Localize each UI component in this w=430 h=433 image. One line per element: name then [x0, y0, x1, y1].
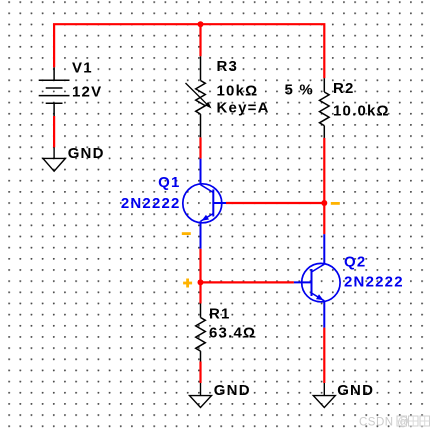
svg-text:10kΩ: 10kΩ: [217, 83, 259, 100]
polarity minus at Q1 emitter: [182, 232, 191, 235]
svg-text:Q1: Q1: [158, 174, 180, 191]
wire R2 bottom to Q2 collector: [323, 138, 325, 234]
wire R3 bottom to Q1 collector: [199, 137, 201, 158]
resistor R2: [320, 78, 330, 138]
ground GND middle: [190, 383, 212, 408]
battery V1: [39, 67, 70, 116]
svg-text:12V: 12V: [72, 84, 102, 101]
polarity minus at node B: [331, 202, 340, 205]
resistor R1: [196, 304, 206, 362]
svg-text:R3: R3: [217, 58, 239, 75]
junction node E (Q1 emitter / Q2 base / R1): [198, 279, 204, 285]
wire R1 bottom to GND: [199, 362, 201, 384]
transistor Q2 emitter arrow: [316, 294, 324, 300]
transistor Q1: [183, 159, 226, 249]
ground GND left: [43, 147, 65, 171]
wire R3 top stub: [199, 24, 201, 56]
polarity plus at node E: [183, 279, 192, 288]
wire Q2 emitter to GND: [323, 328, 325, 383]
svg-text:2N2222: 2N2222: [344, 273, 404, 290]
svg-text:63.4Ω: 63.4Ω: [209, 325, 256, 342]
svg-text:Key=A: Key=A: [217, 99, 270, 116]
svg-text:Q2: Q2: [344, 254, 366, 271]
wire Q1 base to node B: [226, 202, 324, 204]
svg-text:R2: R2: [333, 80, 355, 97]
svg-text:10.0kΩ: 10.0kΩ: [333, 103, 390, 120]
wire Q1 emitter down through node E to R1: [199, 249, 201, 304]
potentiometer R3: [186, 56, 208, 137]
watermark CSDN: [359, 416, 430, 429]
potentiometer R3 arrow head: [205, 102, 212, 109]
svg-text:GND: GND: [337, 382, 374, 399]
transistor Q2: [294, 234, 340, 327]
svg-text:V1: V1: [72, 60, 93, 77]
svg-text:5 %: 5 %: [285, 82, 314, 99]
junction node top (R3/rail): [198, 21, 204, 27]
svg-text:2N2222: 2N2222: [121, 195, 181, 212]
svg-text:GND: GND: [68, 145, 105, 162]
wire battery minus to GND: [53, 116, 55, 147]
wire node E to Q2 base: [201, 281, 294, 283]
ground GND right: [313, 383, 335, 408]
svg-text:GND: GND: [214, 382, 251, 399]
junction node B (Q1 base / R2 / Q2 collector): [321, 200, 327, 206]
transistor Q1 emitter arrow: [202, 215, 210, 221]
svg-text:R1: R1: [209, 306, 231, 323]
wire top rail from V1 to R2: [54, 24, 324, 78]
